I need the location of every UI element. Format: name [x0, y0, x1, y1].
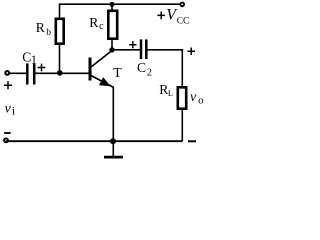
- node ground junction: [110, 138, 116, 144]
- node base junction: [57, 70, 63, 76]
- resistor Rb: [56, 19, 64, 44]
- wire bottom rail: [6, 140, 182, 142]
- svg-text:2: 2: [147, 67, 152, 78]
- label +Vcc: [157, 7, 189, 27]
- terminal input top: [4, 70, 10, 76]
- svg-text:o: o: [198, 95, 204, 107]
- wire C2 right plate to RL top with corner: [146, 50, 182, 88]
- resistor Rc: [108, 11, 117, 39]
- svg-text:CC: CC: [177, 17, 190, 27]
- label Rb: [36, 20, 52, 38]
- label + polarity of C2: [129, 41, 136, 48]
- label + polarity of C1: [38, 64, 46, 72]
- wire collector node to C2 left plate: [112, 49, 140, 51]
- label Rc: [89, 15, 104, 32]
- wire emitter vertical: [112, 87, 114, 141]
- svg-text:C: C: [137, 60, 146, 75]
- wire top +Vcc rail with corner down to Rb: [60, 4, 183, 18]
- node top rail junction: [110, 2, 115, 7]
- resistor RL: [178, 87, 186, 108]
- terminal input bottom: [3, 137, 9, 143]
- label vo: [190, 90, 204, 107]
- label - input minus: [4, 132, 10, 134]
- capacitor C2: [141, 39, 146, 59]
- wire rail to Rc top: [111, 4, 113, 11]
- terminal +Vcc dot: [179, 2, 185, 8]
- ground: [104, 141, 123, 157]
- label RL: [159, 82, 173, 98]
- wire C1 right plate to transistor base: [34, 72, 89, 74]
- wire Rb bottom to base node: [59, 44, 61, 74]
- label + input polarity: [4, 81, 12, 89]
- transistor T: [90, 51, 114, 88]
- node collector junction: [109, 47, 114, 52]
- svg-text:1: 1: [31, 53, 37, 67]
- label C1: [22, 49, 37, 67]
- svg-text:v: v: [190, 90, 197, 105]
- svg-text:R: R: [36, 20, 46, 35]
- label + output polarity: [188, 48, 196, 56]
- svg-text:v: v: [5, 102, 12, 117]
- label - output minus: [188, 140, 196, 142]
- wire input terminal to C1 left plate: [7, 72, 27, 74]
- capacitor C1: [27, 63, 34, 84]
- svg-text:R: R: [89, 15, 99, 30]
- label C2: [137, 60, 152, 78]
- wire RL bottom to rail: [181, 109, 183, 142]
- svg-text:T: T: [113, 65, 122, 80]
- svg-text:b: b: [46, 28, 51, 38]
- wire Rc bottom to collector node: [111, 39, 113, 50]
- label vi: [5, 102, 16, 118]
- svg-text:c: c: [99, 21, 104, 32]
- svg-text:L: L: [168, 88, 173, 98]
